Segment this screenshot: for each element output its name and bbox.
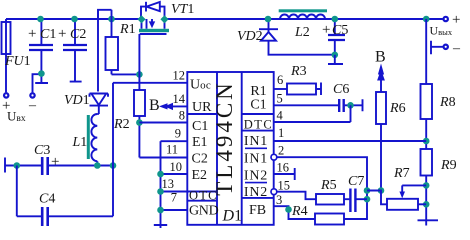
overline for IN1 <box>245 147 267 149</box>
wire: VD1 anode down to L1 <box>97 106 99 114</box>
svg-text:12: 12 <box>173 69 186 83</box>
op-amp U1 : IC D1 TL494CN box <box>187 72 273 225</box>
capacitor C3 <box>42 157 48 175</box>
node: rail junction R1 <box>108 16 115 23</box>
svg-text:3: 3 <box>276 193 282 207</box>
IC internal labels <box>189 78 219 219</box>
capacitor C2 <box>70 19 82 82</box>
svg-text:R7: R7 <box>393 166 410 181</box>
fuse FU1 <box>2 22 11 54</box>
node: R2 bottom / pin8 junction <box>136 119 143 126</box>
wire: R3 right lead with tick <box>316 83 321 96</box>
wire: R9 bottom to ground <box>425 176 427 221</box>
core bar of L2 (teal) <box>279 9 327 12</box>
node: pin10 junction <box>157 171 164 178</box>
substrate arrow <box>151 19 153 22</box>
svg-text:C1: C1 <box>192 119 208 134</box>
svg-text:R2: R2 <box>113 117 130 132</box>
node: VD2 top <box>265 16 272 23</box>
wire: R1 bottom to gate node <box>112 70 140 74</box>
svg-text:8: 8 <box>179 109 185 123</box>
node: C (R6/R7-left/pin2bus) <box>378 187 385 194</box>
svg-text:IN1: IN1 <box>244 134 268 149</box>
capacitor C4 <box>42 207 48 226</box>
node: C5 top <box>332 16 339 23</box>
svg-text:C4: C4 <box>39 192 55 207</box>
svg-text:+: + <box>452 12 460 28</box>
wire: pin 9 line <box>161 140 188 142</box>
svg-text:C1: C1 <box>250 98 266 113</box>
body diode <box>145 2 147 12</box>
svg-text:L2: L2 <box>294 25 310 40</box>
wire: pin 15 line to R5 <box>277 192 316 200</box>
resistor R1 <box>106 37 119 70</box>
svg-text:R8: R8 <box>439 95 456 110</box>
separator below C1 (right col) <box>242 113 274 115</box>
node: C5 bottom <box>332 52 339 59</box>
node: C3-line left junction <box>13 162 20 169</box>
node: VT1 drain <box>160 15 168 23</box>
terminal + (output) <box>444 17 448 21</box>
overline for IN2 <box>245 182 267 184</box>
svg-text:7: 7 <box>171 191 177 205</box>
svg-text:R3: R3 <box>290 64 307 79</box>
svg-text:–: – <box>452 41 461 56</box>
wire: gate down through pin12 line to R2 <box>138 34 140 90</box>
wire: R7 right lead <box>418 203 426 205</box>
ground (IC bus) <box>154 225 167 228</box>
svg-text:R1: R1 <box>119 22 136 37</box>
node: pin13 junction <box>157 188 164 195</box>
terminal - (output) <box>444 45 448 49</box>
ground (right) <box>418 220 439 225</box>
svg-text:C7: C7 <box>348 174 364 189</box>
svg-text:TL494CN: TL494CN <box>212 80 237 196</box>
svg-text:UR: UR <box>192 100 212 115</box>
C5 bottom stub <box>328 55 343 64</box>
resistor R7 (potentiometer) <box>387 199 418 210</box>
svg-text:B: B <box>375 49 386 66</box>
svg-text:Uвх: Uвх <box>7 109 26 124</box>
channel bar (teal) <box>139 29 169 32</box>
svg-text:C2: C2 <box>192 152 208 167</box>
svg-text:+: + <box>58 26 66 42</box>
gate line <box>140 33 167 35</box>
svg-text:C2: C2 <box>70 27 86 42</box>
capacitor C5 <box>334 19 336 55</box>
source/drain/substrate taps <box>142 19 165 29</box>
resistor R9 <box>421 149 433 176</box>
capacitor C7 <box>344 198 367 200</box>
capacitor C6 <box>339 99 344 112</box>
wire: top rail <box>6 18 142 20</box>
wire: pin 1 line <box>274 140 427 142</box>
wire: VT1 drain to VD2/L2/output <box>165 18 443 20</box>
pin 2 inversion circle <box>271 154 277 160</box>
svg-text:E2: E2 <box>192 168 208 183</box>
resistor R4 <box>315 214 344 225</box>
wire: left riser C3 to C4 line <box>16 166 18 217</box>
node: VT1 source <box>137 15 145 23</box>
svg-text:L1: L1 <box>72 135 88 150</box>
diode VD1 <box>90 94 109 97</box>
svg-text:–: – <box>28 98 37 113</box>
svg-text:C1: C1 <box>40 27 56 42</box>
svg-text:IN2: IN2 <box>244 185 268 200</box>
node: R1/gate junction <box>136 71 143 78</box>
wire: VD1 cathode lead up / R1 top lead <box>98 10 112 92</box>
node: rail junction C2 <box>71 16 78 23</box>
svg-text:B: B <box>149 97 160 114</box>
wire: pin 7 line <box>161 209 188 211</box>
svg-text:4: 4 <box>277 109 284 123</box>
node: R7 right junction <box>423 201 430 208</box>
resistor R2 <box>134 90 145 116</box>
wire: R2 bottom down to pin11 corner <box>138 116 140 158</box>
node: A junction (pin2 bus / R7 net) <box>364 187 371 194</box>
separator above OTC <box>187 191 217 193</box>
svg-text:+: + <box>51 154 59 170</box>
svg-text:14: 14 <box>173 92 186 106</box>
node: rail junction C1 <box>37 16 44 23</box>
node: C1 bottom junction <box>38 70 45 77</box>
node: pin7 junction <box>157 207 164 214</box>
node: pin1 line junction <box>423 138 430 145</box>
wire: pin 10 line <box>161 173 188 175</box>
wire: pin 8 line <box>139 122 187 124</box>
svg-text:6: 6 <box>277 73 283 87</box>
svg-text:9: 9 <box>175 127 181 141</box>
svg-text:C5: C5 <box>332 23 348 38</box>
wire: C1 bottom to minus terminal with stub <box>33 74 49 93</box>
wire: minus output line with tick <box>431 41 443 55</box>
svg-text:VD2: VD2 <box>237 29 263 44</box>
separator below UR <box>187 113 217 115</box>
wire: C6 right lead with tick <box>345 99 363 111</box>
wire: pin 16 stub with tick <box>274 168 295 180</box>
svg-text:15: 15 <box>278 179 291 193</box>
separator above FB (right col) <box>242 197 274 199</box>
svg-text:FU1: FU1 <box>4 54 31 69</box>
svg-text:D1: D1 <box>222 208 243 225</box>
wire: R6 bottom drop to R7 net <box>380 124 382 191</box>
wire: wiper to R9 bottom <box>402 184 426 186</box>
svg-text:R4: R4 <box>291 204 308 219</box>
wire: hop from VD1 over to R1 top <box>98 10 112 19</box>
wire: common line (C3 line) <box>5 165 113 167</box>
wire: pin 12 line <box>113 82 187 84</box>
svg-text:E1: E1 <box>192 135 208 150</box>
svg-text:Uвых: Uвых <box>430 24 453 38</box>
separator below DTC (right col) <box>242 130 274 132</box>
resistor R5 <box>316 194 344 205</box>
svg-text:IN1: IN1 <box>244 152 268 167</box>
svg-text:FB: FB <box>249 203 266 218</box>
wire: pin 4 line <box>274 121 351 123</box>
svg-text:C3: C3 <box>34 143 50 158</box>
wire: fuse through-wire down to + terminal <box>5 19 7 92</box>
wire: R8 bottom to R9 top <box>425 119 427 149</box>
svg-text:Uос: Uос <box>190 78 211 93</box>
svg-text:+: + <box>322 22 330 38</box>
svg-text:5: 5 <box>277 92 283 106</box>
wire: C6 junction down to pin 4 line <box>350 105 352 122</box>
svg-text:VT1: VT1 <box>171 2 194 17</box>
transistor VT1 <box>139 2 169 34</box>
node: riser junction <box>110 162 117 169</box>
wire: L1 bottom to common line <box>96 161 98 165</box>
terminal - (input) <box>30 93 34 97</box>
node: L1 junction <box>94 162 101 169</box>
wire: pin 5 line to C6 <box>274 104 339 106</box>
wire: pin 3 line to R4 <box>274 206 315 219</box>
wire/node B arrow (up) at R6 top <box>380 76 382 92</box>
inductor L1 <box>91 114 97 161</box>
inductor L2 <box>280 15 325 20</box>
wiper arrow of R7 <box>401 185 403 192</box>
svg-text:DTC: DTC <box>244 118 274 132</box>
svg-text:VD1: VD1 <box>64 93 90 108</box>
wire: pin 6 to R3 <box>274 88 287 90</box>
svg-text:13: 13 <box>162 177 175 191</box>
pin numbers <box>162 69 186 205</box>
svg-text:R5: R5 <box>320 178 337 193</box>
wire: C4 line <box>17 215 113 217</box>
svg-text:1: 1 <box>278 126 284 140</box>
svg-text:+: + <box>28 26 36 42</box>
node: output junction <box>423 16 430 23</box>
wire: pin12 riser down through C3-line to C4 line <box>112 83 114 217</box>
node: C7 junction <box>364 196 371 203</box>
core bar of L1 (teal) <box>87 115 90 159</box>
wire: output down to R8 <box>425 19 427 84</box>
wire: pin 13 line <box>161 191 188 193</box>
node: R9 bottom / wiper junction <box>423 182 430 189</box>
svg-text:R9: R9 <box>440 158 457 173</box>
resistor R3 <box>287 84 316 95</box>
node: C6 junction <box>347 102 354 109</box>
svg-text:10: 10 <box>170 160 183 174</box>
capacitor C1 <box>40 19 42 74</box>
terminal + (input) <box>4 93 8 97</box>
svg-text:2: 2 <box>278 144 284 158</box>
wire: pin 14 B arrow (left) <box>169 105 187 107</box>
wire: A to C and down to R7 left <box>367 191 387 205</box>
node: pin3 junction <box>285 206 292 213</box>
resistor R8 <box>421 84 433 119</box>
svg-text:11: 11 <box>166 143 178 157</box>
svg-text:R6: R6 <box>389 101 406 116</box>
pin 15 inversion circle <box>271 189 277 195</box>
svg-text:16: 16 <box>277 161 290 175</box>
svg-text:IN2: IN2 <box>244 169 268 184</box>
left end tick <box>4 158 6 173</box>
diode VD2 <box>259 28 278 30</box>
svg-text:C6: C6 <box>333 82 349 97</box>
wire: E-bus (pins 9,10,13,7 to ground) <box>160 141 162 225</box>
svg-text:GND: GND <box>189 204 219 219</box>
wire: pin 2 line and down bus to R4 <box>277 157 367 219</box>
separator above GND <box>187 200 217 202</box>
resistor R6 <box>376 92 386 124</box>
wire: pin 11 line <box>139 157 187 159</box>
